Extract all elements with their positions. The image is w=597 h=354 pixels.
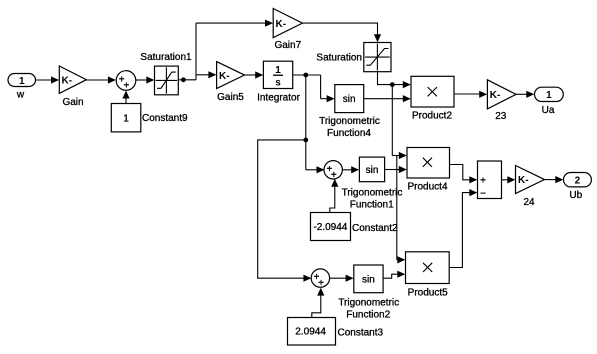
wire Gain5 to Integrator bbox=[245, 71, 264, 78]
constant Constant9 (1) bbox=[111, 104, 188, 132]
svg-text:Function4: Function4 bbox=[327, 128, 371, 139]
product Product4 (x) bbox=[407, 148, 450, 193]
svg-text:23: 23 bbox=[495, 111, 507, 122]
wire Gain to Sum bbox=[86, 76, 116, 83]
integrator Integrator (1/s) bbox=[257, 61, 300, 103]
svg-text:w: w bbox=[16, 90, 25, 101]
wire gain 24 to outport Ub bbox=[545, 176, 564, 183]
junction node at Integrator output bbox=[303, 73, 308, 78]
svg-text:sin: sin bbox=[343, 94, 356, 105]
svg-text:K-: K- bbox=[62, 76, 73, 87]
svg-text:Constant3: Constant3 bbox=[338, 327, 384, 338]
trigonometry block Trigonometric Function1 (sin) bbox=[342, 157, 403, 211]
junction node after Saturation1 bbox=[181, 77, 186, 82]
svg-text:s: s bbox=[275, 78, 281, 89]
sum junction (+ +) before Trigonometric Function2 bbox=[311, 269, 329, 289]
wire Saturation output down to Product5 input 1 bbox=[397, 156, 406, 264]
wire Trigonometric Function4 to Product2 input 2 bbox=[364, 95, 411, 102]
sum junction (+ +) after Gain bbox=[116, 71, 136, 92]
svg-text:Saturation1: Saturation1 bbox=[140, 52, 192, 63]
constant Constant3 (2.0944) bbox=[288, 318, 384, 346]
svg-text:K-: K- bbox=[276, 19, 287, 30]
wire Trigonometric Function1 to Product4 input 2 bbox=[385, 166, 407, 173]
svg-text:Gain7: Gain7 bbox=[274, 40, 301, 51]
svg-text:Constant9: Constant9 bbox=[142, 113, 188, 124]
wire Constant9 to Sum bbox=[122, 91, 129, 104]
wire Saturation1 output with branch to Gain5 and Gain7 bbox=[178, 23, 216, 80]
svg-text:Trigonometric: Trigonometric bbox=[338, 298, 399, 309]
svg-text:Product4: Product4 bbox=[407, 182, 447, 193]
svg-text:Constant2: Constant2 bbox=[352, 223, 398, 234]
wire sum to Trigonometric Function1 bbox=[342, 166, 359, 173]
svg-text:2.0944: 2.0944 bbox=[295, 327, 326, 338]
trigonometry block Trigonometric Function2 (sin) bbox=[338, 265, 399, 321]
sum block (+ -) bbox=[478, 161, 502, 200]
product Product5 (x) bbox=[406, 252, 450, 298]
svg-text:+: + bbox=[331, 170, 337, 181]
saturation Saturation1 bbox=[140, 52, 192, 95]
gain 24 (K-) bbox=[516, 166, 545, 209]
svg-text:sin: sin bbox=[366, 165, 379, 176]
product Product2 (x) bbox=[411, 76, 454, 121]
wire Constant2 to sum bbox=[330, 179, 339, 213]
wire branch left and down to sum before Trigonometric Function2 bbox=[258, 140, 312, 282]
wire sum block to gain 24 bbox=[502, 176, 516, 183]
wire sum to Trigonometric Function2 bbox=[329, 275, 353, 282]
wire branch to Gain7 bbox=[196, 20, 273, 27]
junction node Saturation output bbox=[390, 82, 395, 87]
svg-text:2: 2 bbox=[575, 176, 581, 187]
wire branch down to sum before Trigonometric Function1 bbox=[306, 140, 325, 174]
svg-text:Ub: Ub bbox=[569, 190, 582, 201]
constant Constant2 (-2.0944) bbox=[311, 213, 399, 241]
svg-text:1: 1 bbox=[123, 114, 129, 125]
svg-text:−: − bbox=[480, 189, 486, 200]
gain Gain5 (K-) bbox=[217, 62, 245, 103]
wire Saturation output down to Product4 input 1 bbox=[392, 85, 407, 160]
svg-text:-2.0944: -2.0944 bbox=[313, 222, 347, 233]
svg-text:sin: sin bbox=[362, 275, 375, 286]
wire Integrator output to Trigonometric Function4 bbox=[293, 75, 335, 102]
wire Product4 to sum + input bbox=[450, 165, 478, 184]
svg-text:Gain5: Gain5 bbox=[217, 92, 244, 103]
gain Gain7 (K-) bbox=[273, 9, 302, 52]
wire Integrator output down to sum junctions bbox=[305, 75, 307, 140]
svg-text:K-: K- bbox=[219, 71, 230, 82]
svg-text:Gain: Gain bbox=[62, 97, 83, 108]
svg-text:+: + bbox=[318, 278, 324, 289]
trigonometry block Trigonometric Function4 (sin) bbox=[319, 85, 380, 140]
inport 1 (w) bbox=[8, 74, 36, 101]
svg-text:+: + bbox=[123, 81, 129, 92]
svg-text:1: 1 bbox=[546, 90, 552, 101]
saturation Saturation bbox=[316, 43, 391, 72]
svg-text:Function1: Function1 bbox=[350, 200, 394, 211]
wire Saturation to Product2 input 1 bbox=[378, 72, 411, 89]
wire Sum to Saturation1 bbox=[136, 76, 155, 83]
svg-text:Trigonometric: Trigonometric bbox=[319, 116, 380, 127]
junction node theta branch bbox=[303, 138, 308, 143]
wire Product2 to gain 23 bbox=[454, 91, 487, 98]
wire gain 23 to outport Ua bbox=[516, 91, 534, 98]
gain 23 (K-) bbox=[487, 80, 516, 122]
outport 2 (Ub) bbox=[564, 173, 592, 202]
svg-text:K-: K- bbox=[490, 90, 501, 101]
svg-text:Product5: Product5 bbox=[408, 287, 448, 298]
svg-text:Function2: Function2 bbox=[346, 310, 390, 321]
svg-text:24: 24 bbox=[523, 197, 535, 208]
svg-text:1: 1 bbox=[19, 76, 25, 87]
svg-text:+: + bbox=[480, 175, 486, 186]
wire Trigonometric Function2 to Product5 input 2 bbox=[383, 271, 405, 279]
wire w to Gain bbox=[36, 76, 60, 83]
wire Product5 to sum - input bbox=[449, 189, 477, 268]
wire Constant3 to sum bbox=[312, 288, 325, 318]
svg-text:Saturation: Saturation bbox=[316, 52, 362, 63]
svg-text:Trigonometric: Trigonometric bbox=[342, 188, 403, 199]
outport 1 (Ua) bbox=[535, 87, 564, 116]
svg-text:Product2: Product2 bbox=[412, 110, 452, 121]
svg-text:Integrator: Integrator bbox=[257, 92, 300, 103]
svg-text:Ua: Ua bbox=[542, 105, 555, 116]
sum junction (+ +) before Trigonometric Function1 bbox=[324, 161, 342, 181]
gain Gain (K-) bbox=[59, 66, 86, 108]
wire Gain7 to Saturation bbox=[302, 23, 381, 42]
svg-text:K-: K- bbox=[518, 175, 529, 186]
svg-text:1: 1 bbox=[275, 65, 281, 76]
